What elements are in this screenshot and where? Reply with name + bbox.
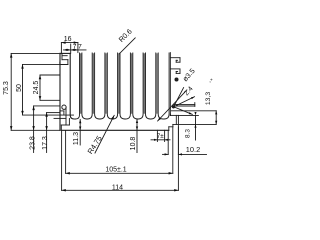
svg-text:10.2: 10.2 bbox=[186, 145, 200, 154]
svg-text:7: 7 bbox=[73, 44, 77, 51]
svg-text:7±: 7± bbox=[157, 133, 164, 140]
svg-text:50: 50 bbox=[16, 84, 23, 92]
svg-text:13,3: 13,3 bbox=[205, 92, 212, 105]
svg-text:16: 16 bbox=[64, 36, 72, 43]
svg-text:75.3: 75.3 bbox=[3, 81, 10, 95]
svg-text:24.5: 24.5 bbox=[33, 81, 40, 95]
svg-text:11.3: 11.3 bbox=[73, 132, 80, 145]
svg-text:10.8: 10.8 bbox=[130, 137, 137, 151]
svg-text:7: 7 bbox=[78, 44, 82, 51]
svg-text:23.8: 23.8 bbox=[29, 136, 36, 150]
svg-text:114: 114 bbox=[112, 184, 123, 191]
svg-text:17.3: 17.3 bbox=[42, 136, 49, 150]
svg-text:8.3: 8.3 bbox=[185, 129, 192, 138]
svg-text:°+: °+ bbox=[209, 78, 214, 83]
svg-text:105±.1: 105±.1 bbox=[105, 166, 126, 173]
